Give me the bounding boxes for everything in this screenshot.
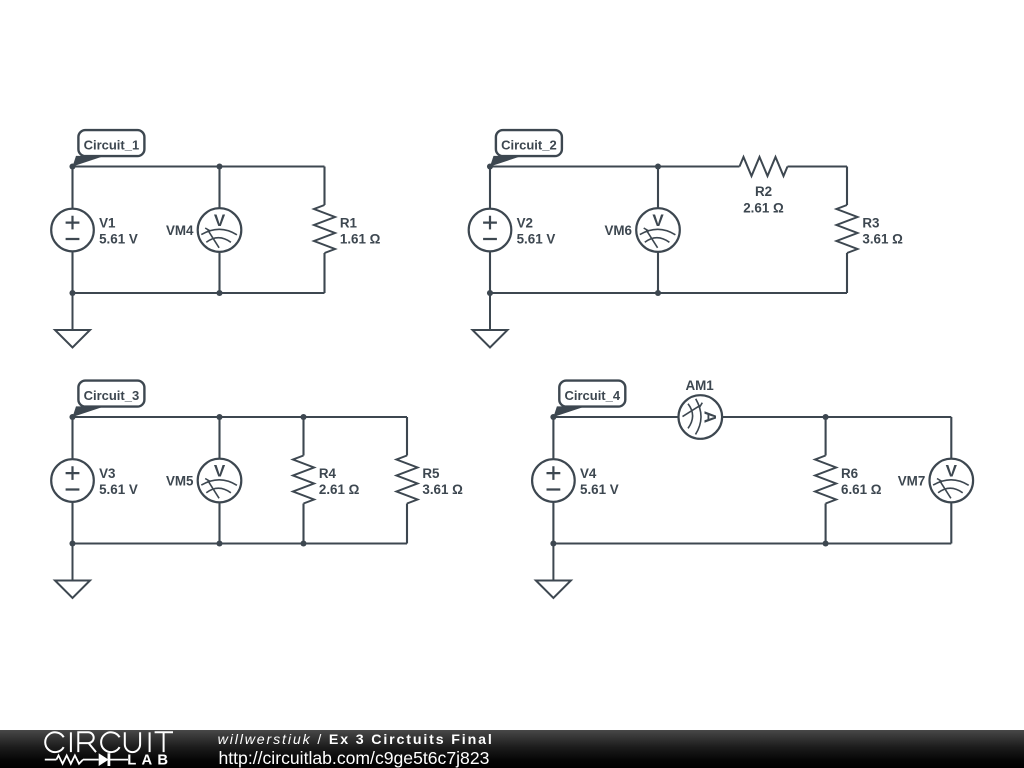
svg-text:V: V xyxy=(214,461,226,480)
svg-text:LAB: LAB xyxy=(127,752,173,768)
node: Circuit_3 R4 bottom junction xyxy=(300,540,306,546)
node: Circuit_1 top-left junction xyxy=(69,163,75,169)
svg-text:2.61 Ω: 2.61 Ω xyxy=(319,482,360,497)
wire: Circuit_4 R6 leads xyxy=(825,417,827,544)
svg-text:R6: R6 xyxy=(841,466,858,481)
wire: Circuit_2 VM6 branch xyxy=(657,167,659,294)
resistor R3 xyxy=(837,205,858,253)
svg-text:V: V xyxy=(214,211,226,230)
wire: Circuit_3 R5 leads xyxy=(406,417,408,544)
svg-text:6.61 Ω: 6.61 Ω xyxy=(841,482,882,497)
wire: Circuit_3 left branch through V3 xyxy=(71,417,73,544)
node: Circuit_3 R4 top junction xyxy=(300,414,306,420)
wire: Circuit_1 bottom rail xyxy=(73,292,325,294)
svg-text:R1: R1 xyxy=(340,216,358,231)
svg-text:1.61 Ω: 1.61 Ω xyxy=(340,231,381,246)
svg-text:V: V xyxy=(652,211,664,230)
node: Circuit_2 top-left junction xyxy=(487,163,493,169)
resistor R4 xyxy=(293,456,314,504)
wire: Circuit_4 right branch through VM7 xyxy=(950,417,952,544)
wire: Circuit_1 top rail xyxy=(73,165,325,167)
label V1 value 5.61 V xyxy=(99,216,138,247)
node: Circuit_3 bottom-left junction xyxy=(69,540,75,546)
wire: Circuit_3 VM5 branch xyxy=(218,417,220,544)
svg-text:AM1: AM1 xyxy=(685,378,714,393)
label V3 value 5.61 V xyxy=(99,466,138,497)
ground xyxy=(536,544,571,599)
svg-text:Circuit_1: Circuit_1 xyxy=(84,137,140,152)
voltage source V2 xyxy=(469,209,512,252)
wire: Circuit_4 bottom rail xyxy=(553,542,951,544)
wire: Circuit_2 R3 leads xyxy=(846,167,848,294)
node: Circuit_3 VM5 bottom junction xyxy=(216,540,222,546)
label V2 value 5.61 V xyxy=(517,216,556,247)
svg-text:V3: V3 xyxy=(99,466,115,481)
wire: Circuit_2 top rail with R2 gap xyxy=(490,165,847,167)
node: Circuit_2 VM6 bottom junction xyxy=(655,290,661,296)
svg-text:A: A xyxy=(701,411,720,423)
svg-text:R2: R2 xyxy=(755,184,772,199)
node: Circuit_4 R6 bottom junction xyxy=(823,540,829,546)
svg-text:VM5: VM5 xyxy=(166,473,194,488)
ground xyxy=(473,293,508,348)
node: Circuit_1 bottom-left junction xyxy=(69,290,75,296)
node: Circuit_2 VM6 top junction xyxy=(655,163,661,169)
wire: Circuit_1 R1 leads xyxy=(323,167,325,294)
node: Circuit_2 bottom-left junction xyxy=(487,290,493,296)
svg-text:V2: V2 xyxy=(517,216,533,231)
voltage source V1 xyxy=(51,209,94,252)
flag label Circuit_2 xyxy=(490,130,562,166)
ground xyxy=(55,544,90,599)
svg-text:5.61 V: 5.61 V xyxy=(580,482,619,497)
svg-text:3.61 Ω: 3.61 Ω xyxy=(422,482,463,497)
svg-text:VM6: VM6 xyxy=(604,223,632,238)
resistor R6 xyxy=(815,456,836,504)
resistor R2 xyxy=(740,157,788,176)
voltmeter VM6 xyxy=(636,208,680,252)
node: Circuit_3 VM5 top junction xyxy=(216,414,222,420)
label V4 value 5.61 V xyxy=(580,466,619,497)
svg-text:Circuit_4: Circuit_4 xyxy=(564,388,620,403)
flag label Circuit_1 xyxy=(73,130,145,166)
svg-text:willwerstiuk / Ex 3 Circtuits: willwerstiuk / Ex 3 Circtuits Final xyxy=(218,732,494,748)
wire: Circuit_3 bottom rail xyxy=(73,542,408,544)
node: Circuit_4 R6 top junction xyxy=(823,414,829,420)
wire: Circuit_3 top rail xyxy=(73,416,408,418)
resistor R5 xyxy=(397,456,418,504)
voltage source V4 xyxy=(532,459,575,502)
footer background bar xyxy=(0,730,1024,768)
node: Circuit_1 VM4 top junction xyxy=(216,163,222,169)
ammeter AM1 xyxy=(679,395,723,439)
voltmeter VM5 xyxy=(198,459,242,503)
label R1 value 1.61 &#937; xyxy=(340,216,381,247)
label R2 value 2.61 &#937; xyxy=(743,184,784,215)
label R6 value 6.61 &#937; xyxy=(841,466,882,497)
voltmeter VM4 xyxy=(198,208,242,252)
svg-text:VM4: VM4 xyxy=(166,223,194,238)
svg-text:5.61 V: 5.61 V xyxy=(517,231,556,246)
wire: Circuit_1 VM4 branch xyxy=(218,167,220,294)
wire: Circuit_3 R4 leads xyxy=(302,417,304,544)
svg-text:V1: V1 xyxy=(99,216,116,231)
svg-text:http://circuitlab.com/c9ge5t6c: http://circuitlab.com/c9ge5t6c7j823 xyxy=(219,748,490,768)
svg-text:R5: R5 xyxy=(422,466,440,481)
CircuitLab logo resistor-diode motif and LAB xyxy=(45,753,128,766)
svg-text:2.61 Ω: 2.61 Ω xyxy=(743,201,784,216)
svg-text:5.61 V: 5.61 V xyxy=(99,482,138,497)
node: Circuit_1 VM4 bottom junction xyxy=(216,290,222,296)
flag label Circuit_3 xyxy=(73,381,145,417)
svg-text:5.61 V: 5.61 V xyxy=(99,231,138,246)
wire: Circuit_4 left branch through V4 xyxy=(552,417,554,544)
ground xyxy=(55,293,90,348)
wire: Circuit_1 left branch through V1 xyxy=(71,167,73,294)
wire: Circuit_2 bottom rail xyxy=(490,292,847,294)
label R3 value 3.61 &#937; xyxy=(862,216,903,247)
svg-text:Circuit_2: Circuit_2 xyxy=(501,137,557,152)
node: Circuit_4 top-left junction xyxy=(550,414,556,420)
flag label Circuit_4 xyxy=(553,381,625,417)
svg-text:V4: V4 xyxy=(580,466,597,481)
node: Circuit_3 top-left junction xyxy=(69,414,75,420)
svg-text:R3: R3 xyxy=(862,216,879,231)
label R4 value 2.61 &#937; xyxy=(319,466,360,497)
wire: Circuit_4 top rail through AM1 xyxy=(553,416,951,418)
svg-text:3.61 Ω: 3.61 Ω xyxy=(862,231,903,246)
label R5 value 3.61 &#937; xyxy=(422,466,463,497)
svg-text:R4: R4 xyxy=(319,466,337,481)
svg-text:Circuit_3: Circuit_3 xyxy=(84,388,140,403)
svg-text:VM7: VM7 xyxy=(898,473,926,488)
node: Circuit_4 bottom-left junction xyxy=(550,540,556,546)
voltage source V3 xyxy=(51,459,94,502)
voltmeter VM7 xyxy=(930,459,974,503)
CircuitLab logo wordmark CIRCUIT xyxy=(45,732,173,752)
svg-text:V: V xyxy=(946,461,958,480)
wire: Circuit_2 left branch through V2 xyxy=(489,167,491,294)
resistor R1 xyxy=(314,205,335,253)
